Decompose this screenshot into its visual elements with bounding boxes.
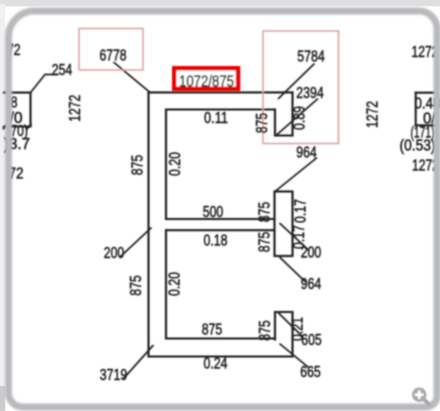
leader 964 lower bbox=[280, 258, 305, 282]
arrow tick left box left end bbox=[3, 125, 8, 130]
svg-text:0.17: 0.17 bbox=[291, 225, 308, 249]
svg-text:200: 200 bbox=[104, 245, 125, 262]
left partial box right vertical bbox=[29, 93, 31, 127]
bottom hook right vertical bbox=[291, 312, 293, 357]
svg-text:875: 875 bbox=[257, 202, 274, 223]
svg-text:0.21: 0.21 bbox=[290, 317, 307, 341]
svg-text:6778: 6778 bbox=[100, 48, 127, 65]
wire top chord bbox=[149, 91, 293, 93]
svg-text:0.20: 0.20 bbox=[167, 152, 184, 176]
leader 2394 bbox=[277, 99, 318, 135]
rect2 top line bbox=[166, 229, 275, 231]
svg-text:1272: 1272 bbox=[365, 101, 382, 128]
red highlight box 1072/875 bbox=[174, 68, 238, 89]
svg-text:5784: 5784 bbox=[297, 49, 325, 66]
top gray strip outside frame bbox=[0, 0, 440, 6]
svg-text:2394: 2394 bbox=[296, 85, 324, 102]
svg-text:964: 964 bbox=[301, 276, 322, 293]
pink rect around 5784/2394 bbox=[263, 31, 339, 144]
svg-text:0.17: 0.17 bbox=[293, 199, 310, 223]
svg-text:875: 875 bbox=[257, 320, 274, 341]
rect1 left edge bbox=[165, 110, 167, 220]
svg-text:0.18: 0.18 bbox=[204, 233, 228, 250]
svg-text:254: 254 bbox=[52, 62, 73, 79]
leader 6778 bbox=[114, 63, 150, 93]
bottom hook left vertical bbox=[274, 312, 276, 340]
leader 200 left bbox=[121, 228, 152, 257]
magnifier zoom icon bbox=[412, 388, 429, 405]
pink rect around 6778 bbox=[79, 29, 143, 71]
top hook left vertical bbox=[274, 110, 276, 136]
svg-text:500: 500 bbox=[203, 204, 224, 221]
right partial box top bbox=[416, 92, 436, 94]
bottom-left gray patch outside frame bbox=[0, 386, 5, 411]
leader 605 bbox=[279, 313, 303, 336]
leader 254 bbox=[31, 75, 59, 93]
svg-text:1272: 1272 bbox=[67, 95, 84, 122]
rect1 top line bbox=[166, 108, 275, 110]
rect1 bottom line (500) bbox=[166, 218, 275, 220]
rect2 left edge bbox=[165, 230, 167, 338]
svg-text:875: 875 bbox=[254, 113, 271, 134]
leader 964 upper bbox=[275, 158, 317, 192]
wire main left vertical bbox=[147, 92, 149, 356]
leader 5784 bbox=[279, 64, 315, 99]
svg-text:3719: 3719 bbox=[100, 367, 128, 384]
svg-text:875: 875 bbox=[257, 232, 274, 253]
right partial box left vertical bbox=[415, 93, 417, 126]
middle hook rectangle bbox=[275, 192, 293, 257]
leader 3719 bbox=[124, 346, 153, 379]
leader 665 bbox=[280, 344, 308, 367]
svg-text:875: 875 bbox=[130, 155, 147, 176]
svg-text:0.11: 0.11 bbox=[204, 110, 228, 127]
arrow tick left box bbox=[26, 124, 32, 130]
right partial box bottom bbox=[416, 124, 436, 126]
svg-text:0.24: 0.24 bbox=[204, 356, 228, 373]
svg-text:665: 665 bbox=[300, 364, 321, 381]
svg-text:875: 875 bbox=[128, 275, 145, 296]
left gray strip outside frame bbox=[0, 4, 5, 386]
svg-text:875: 875 bbox=[202, 322, 223, 339]
left partial box bottom bbox=[4, 125, 31, 127]
svg-text:(0.53): (0.53) bbox=[400, 138, 436, 155]
leader 200 right bbox=[280, 224, 309, 251]
svg-text:0.20: 0.20 bbox=[167, 272, 184, 296]
bottom hook top bbox=[275, 311, 293, 313]
left partial box top bbox=[4, 92, 31, 94]
drawing lines bbox=[4, 92, 436, 356]
top hook right vertical bbox=[291, 92, 293, 135]
svg-text:1072/875: 1072/875 bbox=[179, 73, 234, 90]
svg-text:0.89: 0.89 bbox=[292, 106, 309, 130]
top hook bottom bbox=[275, 134, 293, 136]
svg-text:964: 964 bbox=[296, 145, 317, 162]
wire bottom chord bbox=[149, 355, 293, 357]
rect2 bottom line bbox=[166, 337, 275, 339]
